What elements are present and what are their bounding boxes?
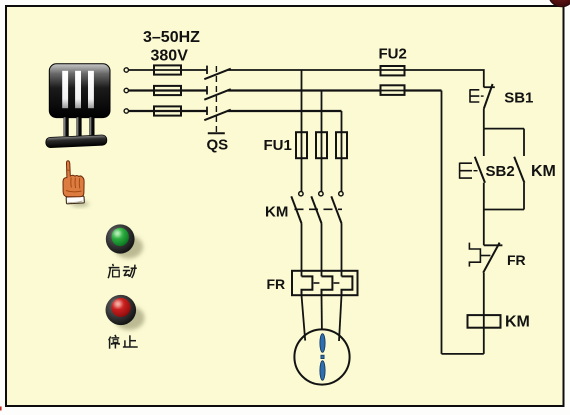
- wire FR to motor right: [339, 295, 342, 341]
- stop button dome highlight: [114, 301, 121, 307]
- svg-text:KM: KM: [531, 163, 556, 180]
- wire L3 from terminal to QS: [129, 110, 208, 112]
- wire FU2 lower inside: [381, 90, 405, 92]
- QS linkage dashed line: [215, 66, 217, 132]
- svg-text:FR: FR: [267, 276, 286, 292]
- FR contact tick: [484, 244, 503, 246]
- source icon leg 2: [76, 117, 81, 136]
- svg-text:3–50HZ: 3–50HZ: [143, 29, 200, 46]
- SB2 actuator dash: [474, 170, 478, 172]
- wire L2 from terminal to QS: [129, 89, 208, 91]
- svg-text:FU1: FU1: [264, 137, 292, 154]
- wire FR to motor mid: [321, 295, 323, 329]
- motor circle: [294, 329, 349, 384]
- pointing hand: [63, 161, 84, 197]
- motor fan top blade: [320, 334, 325, 353]
- KM main blade pole2: [311, 196, 321, 223]
- branch bottom wire: [484, 209, 524, 211]
- start button base: [106, 224, 135, 253]
- return wire vertical: [441, 91, 443, 354]
- motor fan hub: [321, 355, 324, 358]
- stop button base: [106, 295, 137, 325]
- svg-text:FR: FR: [507, 252, 526, 268]
- wire FU2 upper inside: [381, 69, 405, 71]
- source icon prong 1: [62, 71, 68, 108]
- svg-text:QS: QS: [207, 137, 229, 154]
- terminal L1: [124, 68, 128, 72]
- QS blade L3: [204, 110, 231, 121]
- svg-text:FU2: FU2: [379, 46, 407, 63]
- wire pole2 KM to FR: [321, 224, 323, 277]
- source icon prong 2: [75, 71, 81, 108]
- wire branch to FR contact: [483, 210, 485, 246]
- wire pole2 drop: [321, 91, 323, 192]
- bottom return wire: [442, 353, 484, 355]
- source icon base: [46, 135, 107, 148]
- KM main contact circle pole3: [339, 192, 343, 196]
- SB2 upper wire: [483, 129, 485, 156]
- fuse FU1 pole1: [296, 132, 307, 158]
- QS blade L1: [204, 69, 231, 80]
- svg-text:SB1: SB1: [504, 90, 533, 107]
- FU2 fuse upper: [381, 66, 405, 75]
- source icon leg 3: [89, 117, 94, 136]
- KM linkage dashed line: [295, 208, 343, 210]
- wire pole3 KM to FR: [341, 224, 343, 277]
- svg-text:SB2: SB2: [486, 163, 515, 180]
- svg-text:380V: 380V: [151, 48, 189, 65]
- SB1 actuator: [470, 89, 479, 102]
- FR contact blade: [483, 243, 499, 273]
- wire L2 to return corner: [405, 89, 442, 91]
- FR heater dash 1: [314, 282, 320, 284]
- FR contact bracket: [469, 243, 480, 267]
- FR heater dash 2: [334, 282, 340, 284]
- SB2 blade: [475, 157, 485, 183]
- wire SB1 to branch: [483, 109, 485, 129]
- three-phase source icon body: [49, 64, 110, 118]
- KM main blade pole1: [291, 196, 301, 223]
- FR thermal box: [292, 271, 358, 295]
- QS blade L2: [204, 89, 231, 100]
- FR heater pole1: [302, 276, 313, 295]
- terminal L3: [124, 109, 128, 113]
- KM coil: [468, 315, 501, 328]
- QS fixed contact L1: [206, 66, 208, 74]
- wire pole1 KM to FR: [301, 224, 303, 277]
- SB1 fixed tick: [484, 86, 495, 88]
- SB1 blade: [484, 84, 493, 109]
- SB2 lower wire: [483, 183, 485, 210]
- label 启动: [108, 264, 137, 278]
- KM aux blade: [514, 157, 524, 183]
- source icon prong 3: [88, 71, 94, 108]
- supply box L2: [154, 86, 181, 95]
- red ball top-right: [549, 0, 570, 7]
- wire L1 QS to FU2: [228, 69, 381, 71]
- svg-text:KM: KM: [505, 314, 530, 331]
- terminal L2: [124, 88, 128, 92]
- FR heater pole2: [322, 276, 333, 295]
- wire L3 QS to pole3: [228, 110, 342, 112]
- branch top wire: [484, 128, 524, 130]
- start button green dome: [112, 228, 129, 246]
- supply box L3: [154, 106, 181, 115]
- source icon leg 1: [63, 117, 68, 136]
- QS fixed contact L3: [206, 107, 208, 115]
- SB2 actuator: [460, 163, 472, 179]
- KM aux upper wire: [523, 129, 525, 156]
- wire FR to coil: [483, 273, 485, 354]
- wire L2 QS to FU2: [228, 89, 381, 91]
- KM main contact circle pole2: [319, 192, 323, 196]
- FU2 fuse lower: [381, 85, 405, 95]
- red sliver bottom-left: [0, 407, 2, 411]
- fuse FU1 pole2: [316, 132, 327, 158]
- fuse FU1 pole3: [336, 132, 347, 158]
- KM main blade pole3: [331, 196, 341, 223]
- wire L1 from terminal to QS: [129, 69, 208, 71]
- KM aux lower wire: [523, 183, 525, 210]
- FR heater pole3: [342, 276, 353, 295]
- motor fan bottom blade: [320, 361, 325, 381]
- QS fixed contact L2: [206, 86, 208, 94]
- stop button red dome: [111, 298, 130, 317]
- pointing hand shadow: [71, 201, 89, 207]
- FR contact rod: [480, 255, 490, 257]
- wire pole1 drop: [301, 70, 303, 192]
- start button dome highlight: [114, 231, 121, 236]
- QS bottom bar: [208, 132, 225, 134]
- KM main contact circle pole1: [299, 192, 303, 196]
- start button shadow: [114, 236, 143, 259]
- wire FR to motor left: [302, 295, 306, 340]
- hand knuckle lines: [66, 170, 82, 192]
- wire pole3 drop: [341, 111, 343, 192]
- supply box L1: [154, 65, 181, 74]
- wire L1 to SB1 corner: [405, 70, 484, 87]
- SB1 actuator dash: [481, 95, 484, 97]
- label 停止: [109, 335, 138, 349]
- pointing hand cuff: [66, 196, 84, 204]
- stop button shadow: [115, 306, 145, 330]
- svg-text:KM: KM: [265, 203, 288, 220]
